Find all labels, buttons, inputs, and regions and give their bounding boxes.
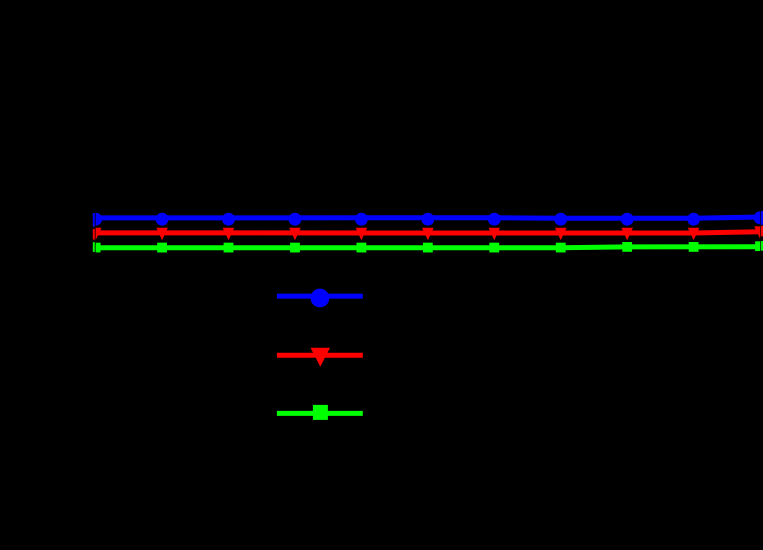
red data series (line, error bars, triangle-down markers) (90, 226, 763, 240)
legend: green entry (line + square marker) (277, 405, 363, 420)
green series: left edge error bar (93, 242, 95, 252)
green data series (line, error bars, square markers) (91, 241, 763, 252)
green series: right edge error bar (761, 241, 763, 251)
blue data series (line, error bars, circle markers) (89, 211, 763, 225)
legend: blue entry (line + circle marker) (277, 289, 363, 308)
red series: right edge error bar (761, 226, 763, 237)
blue series: left edge error bar (93, 213, 95, 227)
blue series: right edge error bar (761, 211, 763, 225)
legend: red entry (line + triangle-down marker) (277, 348, 363, 367)
red series: left edge error bar (93, 229, 95, 240)
